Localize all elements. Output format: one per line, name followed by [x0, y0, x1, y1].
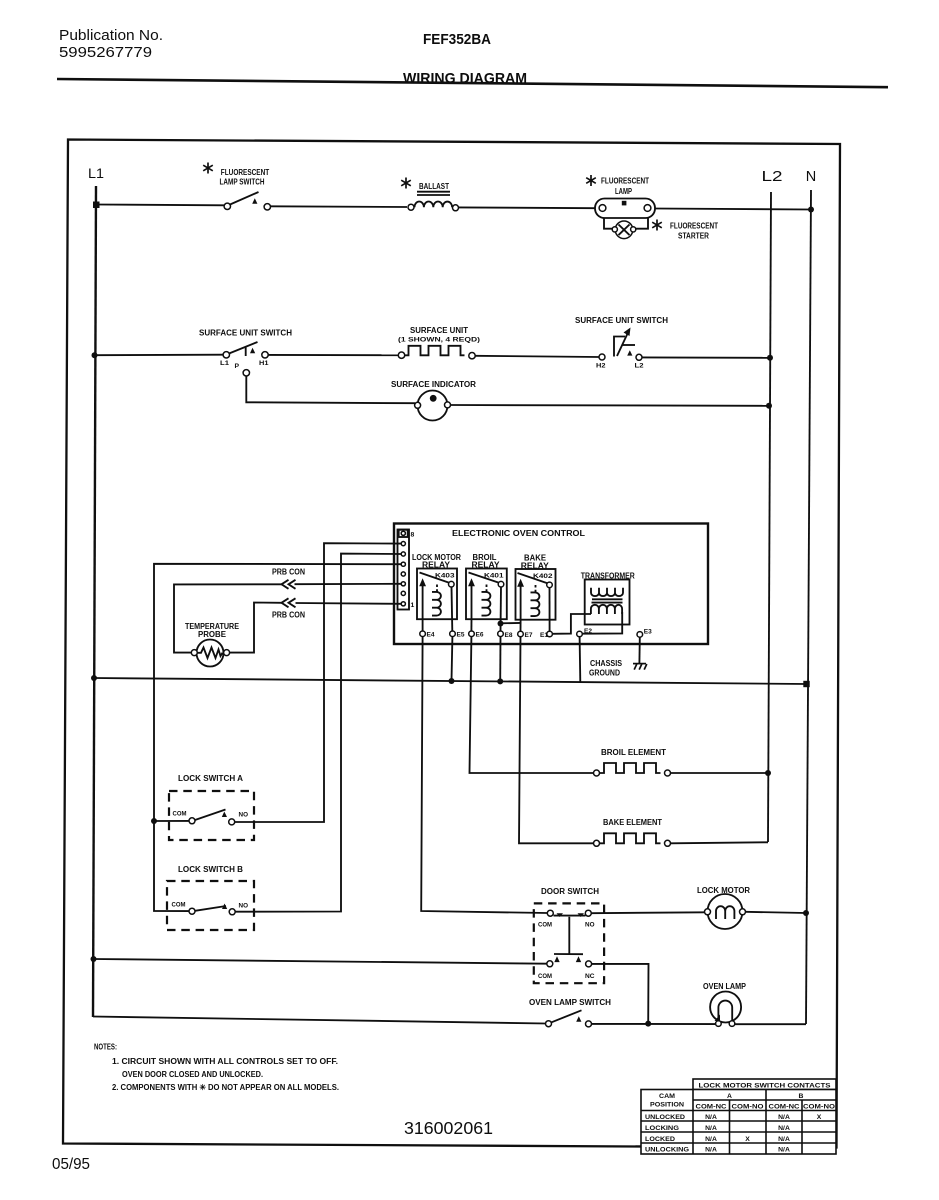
svg-text:LOCK SWITCH B: LOCK SWITCH B — [178, 865, 243, 874]
wire chevron to probe right — [230, 603, 282, 653]
wire pin4 to lock switch commons — [154, 564, 401, 911]
svg-text:H2: H2 — [596, 362, 606, 369]
wire E1 to transformer secondary left — [553, 614, 591, 634]
junction broil/bake common — [498, 621, 504, 627]
svg-text:FLUORESCENT: FLUORESCENT — [670, 222, 718, 231]
svg-text:X: X — [817, 1114, 822, 1121]
wire broil element to L2 — [671, 772, 768, 774]
svg-text:8: 8 — [411, 532, 415, 539]
junction lock switch A common — [151, 818, 157, 824]
svg-text:LOCKED: LOCKED — [645, 1136, 675, 1143]
wire E7 drop to bake element — [519, 637, 594, 844]
svg-text:COM: COM — [172, 902, 186, 909]
terminal E7 — [518, 631, 524, 637]
box lock switch A (dashed) — [169, 791, 254, 840]
asterisk fluorescent lamp switch — [203, 163, 213, 174]
svg-text:ELECTRONIC OVEN CONTROL: ELECTRONIC OVEN CONTROL — [452, 529, 585, 538]
svg-text:BROIL ELEMENT: BROIL ELEMENT — [601, 748, 666, 757]
svg-text:LOCK SWITCH A: LOCK SWITCH A — [178, 774, 243, 783]
wire pin2 to lock switch A NO (left drop) — [235, 543, 401, 822]
wire pin3 to lock switch B NO (left drop) — [235, 554, 401, 912]
starter loop wires — [604, 218, 615, 229]
relay K403 lock motor relay — [417, 569, 457, 620]
terminal E4 — [420, 631, 426, 637]
svg-text:A: A — [727, 1093, 732, 1100]
svg-text:L2: L2 — [635, 362, 644, 369]
svg-text:E1: E1 — [540, 632, 548, 639]
inductor ballast — [408, 192, 459, 211]
svg-text:NO: NO — [239, 903, 249, 910]
relay K401 broil relay — [466, 569, 507, 620]
svg-text:N/A: N/A — [705, 1114, 717, 1121]
svg-text:5995267779: 5995267779 — [59, 44, 152, 61]
wire L1 bottom rail to door COM — [93, 959, 547, 964]
indicator lamp surface indicator — [415, 391, 451, 421]
ground chassis ground symbol — [633, 664, 647, 670]
wire chevron to probe left — [174, 584, 282, 652]
svg-text:COM-NC: COM-NC — [696, 1104, 727, 1111]
wire neutral rail L1 to N — [94, 678, 807, 684]
svg-text:E2: E2 — [584, 628, 592, 635]
svg-text:SURFACE UNIT: SURFACE UNIT — [410, 326, 468, 335]
svg-text:N/A: N/A — [778, 1136, 790, 1143]
svg-text:(1 SHOWN, 4 REQD): (1 SHOWN, 4 REQD) — [398, 337, 480, 344]
svg-text:E3: E3 — [644, 628, 652, 635]
svg-text:COM: COM — [173, 811, 187, 818]
wire pin8 to probe chevron lower — [296, 602, 402, 605]
terminal E1 — [547, 631, 553, 637]
wire L1 to oven lamp switch — [93, 1017, 546, 1024]
svg-text:NOTES:: NOTES: — [94, 1043, 117, 1052]
svg-text:E4: E4 — [427, 632, 435, 639]
junction lamp row — [645, 1021, 651, 1027]
junction row2 at L2 — [767, 355, 773, 361]
wire junction to lock switch A COM — [154, 820, 189, 822]
resistor temperature probe — [191, 640, 229, 667]
svg-text:LOCK MOTOR SWITCH CONTACTS: LOCK MOTOR SWITCH CONTACTS — [699, 1082, 832, 1089]
svg-text:E6: E6 — [476, 632, 484, 639]
junction neutral at N (square) — [803, 681, 809, 687]
wire L2 vertical bus — [768, 192, 771, 842]
svg-text:N/A: N/A — [778, 1114, 790, 1121]
svg-text:SURFACE UNIT SWITCH: SURFACE UNIT SWITCH — [199, 329, 292, 338]
lamp fluorescent lamp body — [595, 199, 655, 219]
wire E5 drop to neutral — [451, 637, 454, 681]
switch lock switch A — [173, 810, 249, 825]
switch door switch lower contact — [538, 956, 595, 980]
box lock switch B (dashed) — [167, 881, 254, 930]
connector chevron PRB CON upper — [282, 580, 296, 589]
svg-text:N/A: N/A — [778, 1147, 790, 1154]
svg-text:LAMP SWITCH: LAMP SWITCH — [220, 178, 265, 187]
svg-text:GROUND: GROUND — [589, 669, 620, 678]
junction lock motor at N — [803, 910, 809, 916]
asterisk ballast — [401, 178, 411, 189]
terminal E2 — [577, 631, 583, 637]
svg-text:NC: NC — [585, 973, 595, 980]
wire E8 drop to neutral — [499, 637, 501, 682]
svg-text:FLUORESCENT: FLUORESCENT — [601, 177, 649, 186]
svg-text:CAM: CAM — [659, 1093, 675, 1100]
svg-text:BAKE ELEMENT: BAKE ELEMENT — [603, 818, 662, 827]
heating element broil element — [594, 763, 671, 776]
svg-text:STARTER: STARTER — [678, 232, 709, 241]
wire P to indicator row — [246, 376, 415, 403]
svg-text:N/A: N/A — [705, 1136, 717, 1143]
svg-text:N/A: N/A — [705, 1125, 717, 1132]
svg-text:1: 1 — [411, 602, 415, 609]
svg-text:L1: L1 — [88, 165, 104, 181]
svg-text:P: P — [235, 363, 240, 370]
wire oven lamp to N bottom — [735, 1023, 806, 1025]
svg-text:FLUORESCENT: FLUORESCENT — [221, 168, 270, 177]
svg-text:SURFACE UNIT SWITCH: SURFACE UNIT SWITCH — [575, 316, 668, 325]
junction L1 row2 — [92, 352, 98, 358]
svg-text:OVEN LAMP SWITCH: OVEN LAMP SWITCH — [529, 998, 611, 1007]
wire pin6 to probe chevron — [295, 583, 402, 585]
box electronic oven control U1 — [394, 524, 708, 645]
wire bake element to L2 bottom — [671, 842, 768, 843]
svg-text:OVEN LAMP: OVEN LAMP — [703, 982, 746, 991]
svg-text:COM: COM — [538, 973, 552, 980]
svg-text:B: B — [799, 1093, 804, 1100]
wire fluorescent lamp to N — [655, 209, 811, 210]
svg-text:LAMP: LAMP — [615, 187, 632, 196]
junction E8 neutral — [497, 678, 503, 684]
wire lock relay contact to E5 — [451, 587, 454, 631]
svg-text:NO: NO — [585, 921, 595, 928]
svg-text:FEF352BA: FEF352BA — [423, 31, 491, 48]
wire lamp switch to oven lamp — [592, 1023, 717, 1025]
asterisk fluorescent lamp — [586, 175, 596, 186]
svg-text:COM: COM — [538, 921, 552, 928]
svg-text:05/95: 05/95 — [52, 1156, 90, 1173]
junction L1 top (square) — [93, 202, 100, 209]
wire door NO to lock motor — [591, 911, 705, 914]
svg-text:COM-NO: COM-NO — [803, 1104, 835, 1111]
junction broil at L2 — [765, 770, 771, 776]
terminal E6 — [469, 631, 475, 637]
wire E6 drop to broil element — [470, 637, 594, 773]
wire L1 to surface unit switch — [95, 354, 224, 357]
wire L1 vertical bus — [93, 186, 96, 1017]
box door switch (dashed) — [534, 903, 604, 983]
svg-text:N/A: N/A — [705, 1147, 717, 1154]
heating element surface unit — [398, 346, 475, 359]
door switch linkage — [568, 917, 570, 954]
terminal E8 — [498, 631, 504, 637]
motor lock motor — [705, 894, 746, 929]
switch surface unit switch left — [223, 342, 268, 358]
wire door NC down to lamp row — [592, 964, 649, 1024]
wire N vertical bus — [806, 190, 811, 1024]
svg-text:PRB CON: PRB CON — [272, 611, 305, 620]
wire ballast to fluorescent lamp — [459, 206, 596, 209]
svg-text:COM-NO: COM-NO — [732, 1104, 764, 1111]
junction E5 neutral — [449, 678, 455, 684]
wire indicator to L2 — [451, 404, 770, 407]
svg-text:DOOR SWITCH: DOOR SWITCH — [541, 887, 599, 896]
transformer T1 — [585, 580, 630, 625]
terminal E3 — [637, 632, 643, 638]
wire E4 drop to door switch — [421, 637, 547, 913]
junction neutral at L1 — [91, 675, 97, 681]
wire bake arrow to E7 — [520, 619, 522, 631]
svg-text:L1: L1 — [220, 360, 229, 367]
svg-text:OVEN DOOR CLOSED AND UNLOCKED.: OVEN DOOR CLOSED AND UNLOCKED. — [122, 1070, 263, 1079]
terminal P pilot — [243, 370, 249, 376]
terminal E5 — [450, 631, 456, 637]
switch door switch upper contact — [538, 910, 595, 928]
switch oven lamp switch — [546, 1010, 592, 1027]
svg-text:UNLOCKING: UNLOCKING — [645, 1147, 689, 1154]
svg-text:2. COMPONENTS WITH ✳ DO NOT A: 2. COMPONENTS WITH ✳ DO NOT APPEAR ON AL… — [112, 1083, 339, 1092]
relay K402 bake relay — [516, 569, 556, 620]
wire junction to bake arrow vertical — [501, 622, 521, 624]
wire right switch to L2 — [642, 356, 770, 358]
connector strip P1 — [398, 530, 410, 610]
svg-text:Publication No.: Publication No. — [59, 27, 163, 44]
svg-text:E5: E5 — [457, 632, 465, 639]
junction bottom rail at L1 — [91, 956, 97, 962]
switch fluorescent lamp switch — [224, 192, 270, 210]
wire E3 to chassis ground — [638, 637, 640, 663]
table lock motor switch contacts — [641, 1079, 836, 1154]
wire lock motor to N — [746, 912, 807, 913]
wire E2 drop to neutral — [579, 637, 582, 682]
wire top row L1 to lamp switch — [96, 204, 225, 207]
wire bake contact to E1 — [549, 588, 551, 632]
wire surface unit to right switch — [475, 356, 599, 357]
lamp oven lamp — [710, 992, 741, 1027]
svg-text:UNLOCKED: UNLOCKED — [645, 1114, 685, 1121]
asterisk fluorescent starter — [652, 220, 662, 231]
wire transformer secondary right to E2 — [583, 612, 623, 634]
header rule line — [57, 79, 888, 87]
wire broil contact to E8 junction — [500, 587, 503, 631]
connector chevron PRB CON lower — [282, 598, 296, 607]
svg-text:COM-NC: COM-NC — [769, 1104, 800, 1111]
border frame — [63, 140, 840, 1148]
switch surface unit switch right (infinite switch) — [599, 328, 642, 361]
svg-text:LOCKING: LOCKING — [645, 1125, 679, 1132]
wire lock relay arrow to E4 — [422, 619, 424, 631]
svg-text:CHASSIS: CHASSIS — [590, 659, 622, 668]
svg-text:X: X — [745, 1136, 750, 1143]
wire lamp switch to ballast — [271, 205, 408, 208]
svg-text:E7: E7 — [525, 632, 533, 639]
junction indicator row at L2 — [766, 403, 772, 409]
svg-text:L2: L2 — [762, 169, 783, 185]
svg-text:1. CIRCUIT SHOWN WITH ALL CON: 1. CIRCUIT SHOWN WITH ALL CONTROLS SET T… — [112, 1057, 338, 1066]
wire switch to surface unit — [268, 354, 398, 356]
starter fluorescent starter — [612, 221, 636, 239]
switch lock switch B — [172, 902, 249, 915]
svg-text:N: N — [806, 169, 816, 185]
svg-text:PROBE: PROBE — [198, 630, 226, 639]
svg-text:POSITION: POSITION — [650, 1102, 684, 1109]
svg-text:E8: E8 — [505, 632, 513, 639]
wire broil arrow to E6 — [470, 619, 472, 631]
svg-text:H1: H1 — [259, 360, 269, 367]
svg-text:NO: NO — [239, 812, 249, 819]
junction top row at N — [808, 207, 814, 213]
svg-text:SURFACE INDICATOR: SURFACE INDICATOR — [391, 380, 476, 389]
heating element bake element — [594, 833, 671, 846]
svg-text:316002061: 316002061 — [404, 1118, 493, 1138]
svg-text:BALLAST: BALLAST — [419, 182, 449, 191]
svg-text:PRB CON: PRB CON — [272, 568, 305, 577]
svg-text:N/A: N/A — [778, 1125, 790, 1132]
